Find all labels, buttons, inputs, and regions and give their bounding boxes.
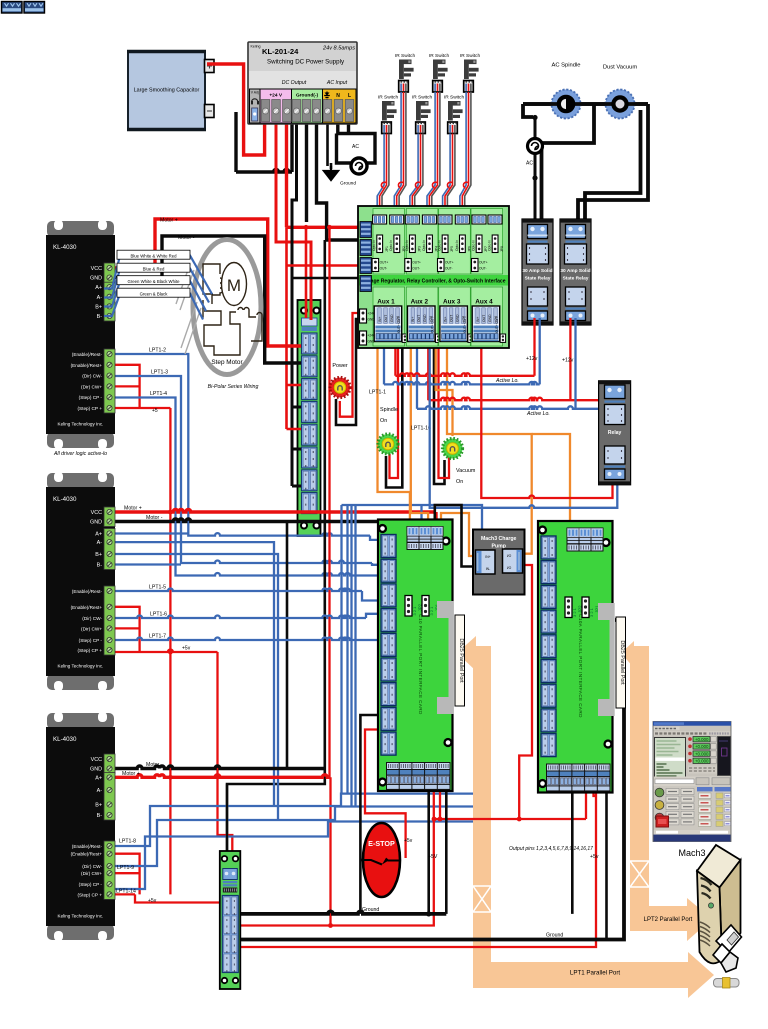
svg-text:Mach3: Mach3 [678,848,705,858]
svg-text:AC Input: AC Input [326,80,348,86]
wire +24 red rail (vertical x329.5) [330,227,331,925]
svg-text:(Step) CP +: (Step) CP + [77,406,102,411]
svg-text:LPT1 Parallel Port: LPT1 Parallel Port [570,970,620,977]
svg-text:Blue White & White Red: Blue White & White Red [130,253,177,258]
svg-text:I/O: I/O [507,566,512,570]
svg-text:Opto In: Opto In [488,240,492,251]
svg-text:LPT1-9: LPT1-9 [117,865,134,871]
junction red rail at lower bus [328,923,333,928]
opto board +24v/GND aux power connectors [360,309,367,323]
svg-text:Motor +: Motor + [160,218,178,224]
jumper JP2 on C10 board 2 [565,597,572,618]
DB25 connector of C10 board 2 [598,603,615,716]
wire IR switch lower 2 pin to opto board [410,134,418,216]
svg-text:Green White & Black White: Green White & Black White [127,279,180,284]
svg-text:IR Switch: IR Switch [460,53,481,59]
wire IR switch lower 2 pin to opto board [412,134,420,216]
svg-text:OUT+ OUT-: OUT+ OUT- [495,316,499,333]
wire driver2 A+ (blue) [104,532,188,534]
wire PSU ground 2 down (black) [307,118,365,240]
opto-switch channel connector 5 [438,215,455,272]
power supply KL-201-24 Switching DC Power Supply [248,42,357,124]
LPT1 cable crossover X symbol [473,886,491,912]
wire ground rail (vertical x324.8) [227,240,325,868]
wire PSU AC N L loop (black) [337,118,376,163]
svg-text:A+: A+ [95,285,102,291]
motor phase wire 4 [104,294,203,320]
junction charge pump red at +5v line c [517,817,522,822]
wire AC line through spindle and vacuum [523,102,648,106]
svg-text:LPT1-8: LPT1-8 [119,839,136,845]
svg-text:(Enable)/Rest-: (Enable)/Rest- [72,352,103,357]
svg-text:(Step) CP +: (Step) CP + [77,648,102,653]
svg-text:Large Smoothing Capacitor: Large Smoothing Capacitor [134,88,200,94]
svg-text:LPT1-6: LPT1-6 [150,612,167,618]
junction charge pump red at +5v line [432,817,437,822]
junction AC spindle top [532,115,537,120]
motor phase wire 3 [104,281,206,311]
C10 parallel port interface card 1 [378,520,453,792]
wire LPT1-14 (blue) [104,822,473,890]
wire PSU AC earth to ground symbol (black) [328,118,332,169]
motor phase wire 1 [104,256,212,295]
wire IR switch lower 1 pin to opto board [380,134,387,216]
svg-text:Motor -: Motor - [146,515,163,521]
solid state relay 2 - 30 Amp Solid State Relay [560,219,591,325]
wire aux2 blue to SSR2 [417,318,617,409]
ground bus 1 (black) [240,911,446,913]
dust vacuum motor [603,65,638,119]
wire IR switch upper 1 pin to opto board [397,92,404,215]
svg-text:GND: GND [90,520,102,526]
KL-4030 2 terminal strip upper [104,507,115,527]
svg-text:Active Lo.: Active Lo. [495,378,519,384]
svg-text:GND: GND [90,767,102,773]
svg-text:OUT+: OUT+ [479,261,488,265]
wire Motor + driver3 (red) [104,775,331,777]
svg-text:(Dir) CW-: (Dir) CW- [82,616,102,621]
wire charge pump orange in [441,513,476,556]
wire aux2 blue down [416,345,418,409]
wire color label - Blue White &amp; White Red [117,250,190,259]
svg-text:LPT1-2: LPT1-2 [149,348,166,354]
svg-text:JP5: JP5 [450,246,454,252]
svg-text:OUT: OUT [482,315,486,322]
solid state relay 1 - 30 Amp Solid State Relay [522,219,553,325]
junction rail at driver3 motor+ [168,775,173,780]
wire IR switch upper 3 pin to opto board [465,92,471,215]
svg-text:Opto In: Opto In [438,240,442,251]
svg-text:(Step) CP -: (Step) CP - [79,638,103,643]
wire driver2 enable jumper (red) [104,607,140,652]
svg-text:(Dir) CW+: (Dir) CW+ [81,871,102,876]
svg-text:Opto In: Opto In [455,240,459,251]
ground symbol at PSU [324,166,338,180]
C10 board 1 bottom terminal row [386,762,451,790]
wire vacuum button black [434,345,445,484]
wire +5 red rail (vertical x170) [169,408,171,894]
svg-text:Keling Technology Inc.: Keling Technology Inc. [58,664,104,669]
svg-text:+0.000: +0.000 [695,751,709,756]
wire 24V feed to opto board lower strip (red) [287,264,361,267]
svg-text:Aux 2: Aux 2 [411,299,429,306]
svg-text:Keling: Keling [251,45,261,49]
svg-text:OUT+ OUT-: OUT+ OUT- [397,316,401,333]
svg-text:+24 V: +24 V [269,93,282,99]
wire hook IR switch upper 2 [432,182,437,188]
svg-text:KL-4030: KL-4030 [53,496,77,503]
bundle blue horizontal to charge pump [342,505,483,530]
svg-text:Ground(-): Ground(-) [296,93,319,99]
wire AC source to spindle AC symbol (black) [534,117,537,139]
wire aux3 orange to vacuum button [436,345,453,436]
junction rail at driver2 +5 [168,650,173,655]
voltage regulator / relay controller / opto-switch interface board [358,206,509,348]
svg-text:LPT1-1: LPT1-1 [369,390,386,396]
stepper driver KL-4030 number 1 [46,220,115,457]
PSU V-Adj section [250,89,261,123]
jumper JP1 on C10 board 2 [582,597,589,618]
svg-text:State Relay: State Relay [525,276,551,282]
svg-text:IN-: IN- [486,567,491,571]
wire Motor + driver2 (red) [104,510,436,527]
LPT2 parallel-port cable band (vertical run from C10 board 2 DB25) [630,663,649,906]
wire driver2 gnd drop (black) [286,522,289,769]
svg-text:OUT-: OUT- [445,267,453,271]
svg-text:GND: GND [390,314,394,322]
wire driver1 enable jumper (red) [104,365,140,408]
wire +5 driver1 to red rail [104,407,170,409]
wire LPT1-9 (blue) [104,807,473,867]
wire IR switch upper 2 pin to opto board [432,92,440,215]
Mach3 software screenshot [653,722,731,842]
svg-text:Power: Power [332,363,347,369]
wire power button red [340,313,360,417]
wire aux1 orange to board1 [378,345,410,526]
wire E-stop to ground (black) [360,859,362,862]
svg-text:IN+: IN+ [378,317,382,322]
svg-text:(Dir) CW+: (Dir) CW+ [81,384,102,389]
svg-text:AC: AC [352,144,359,150]
wire orange to board2 top [532,434,570,526]
Mach3 reset button [656,816,669,827]
svg-text:V Adj: V Adj [251,91,259,95]
svg-text:IR Switch: IR Switch [429,53,450,59]
wire aux3b orange to charge pump [447,345,532,554]
PSU +24V output section [260,89,292,123]
svg-text:+12v: +12v [562,358,574,364]
wire AC mains to spindle and vacuum (black) [523,104,648,117]
svg-text:OUT-: OUT- [412,267,420,271]
svg-text:JP3: JP3 [418,246,422,252]
wire vacuum circuit to SSR2 (black) [578,104,648,222]
IR switch upper 1 [395,53,416,92]
aux output section Aux 2 [406,287,441,346]
DB25 connector of C10 board 1 [437,601,454,714]
wire capacitor + to PSU +24V (red) [207,64,265,155]
svg-text:Blue & Red: Blue & Red [143,266,165,271]
wire Motor - driver3 (black) [104,766,325,769]
svg-text:OUT+ OUT-: OUT+ OUT- [463,316,467,333]
wire spindle AC symbol to SSR1 (black) [534,154,537,223]
wire LPT1-5 (blue) [104,589,381,601]
svg-text:30 Amp Solid: 30 Amp Solid [560,268,590,274]
svg-text:DB25 Parallel Port: DB25 Parallel Port [458,638,464,683]
LPT1 parallel-port cable band (vertical run from C10 board 1 DB25) [473,663,491,962]
svg-text:Step Motor: Step Motor [211,359,243,366]
svg-text:LPT2 Parallel Port: LPT2 Parallel Port [644,917,693,923]
svg-text:(Step) CP -: (Step) CP - [79,395,103,400]
opto-switch channel connector 1 [372,215,389,272]
svg-text:+5V: +5V [428,854,438,860]
svg-text:Relay: Relay [608,430,622,436]
svg-text:+12v: +12v [526,356,538,362]
bundle blue vertical b [346,505,348,794]
svg-text:DC Output: DC Output [282,80,307,86]
svg-text:OUT+: OUT+ [412,261,421,265]
svg-text:B+: B+ [95,304,102,310]
IR switch lower 1 [378,95,399,134]
svg-text:IN+: IN+ [411,317,415,322]
wire LPT1-8 (blue) [104,794,473,846]
wire IR switch upper 3 pin to opto board [462,92,468,215]
stepper driver KL-4030 number 2 [46,472,115,691]
svg-text:B-: B- [97,813,103,819]
wire PSU +24V terminal 2 down to strip (red) [276,118,311,320]
svg-text:OUT+ OUT-: OUT+ OUT- [431,316,435,333]
svg-text:+5v: +5v [590,854,599,860]
opto-switch channel connector 6 [455,215,472,253]
PSU Ground(-) output section [292,89,323,123]
wire board1 bottom red 1 (+5V) [238,791,434,926]
svg-text:A+: A+ [95,532,102,538]
KL-4030 3 terminal strip upper [104,754,115,774]
wire Motor - driver1 (black) [104,236,301,363]
svg-text:B-: B- [97,563,103,569]
arrowhead into DB25 of board 2 [621,641,649,668]
svg-text:+24v: +24v [368,334,375,338]
LPT1 parallel-port cable band (horizontal run to computer) [473,952,714,998]
svg-text:+0.000: +0.000 [695,759,709,764]
DIN terminal strip board (center) [298,300,321,536]
svg-text:B+: B+ [95,552,102,558]
wire driver2 A- (blue) [104,542,274,806]
wire IR switch lower 2 pin to opto board [415,134,423,216]
svg-text:3 2 1: 3 2 1 [572,607,577,617]
svg-text:Motor +: Motor + [122,771,140,777]
svg-text:24v 8.5amps: 24v 8.5amps [322,46,355,52]
svg-text:OUT-: OUT- [380,267,388,271]
svg-text:LPT1-3: LPT1-3 [151,370,168,376]
svg-text:+5v: +5v [182,646,191,652]
svg-text:Opto In: Opto In [389,240,393,251]
svg-text:(Enable)/Rest+: (Enable)/Rest+ [71,363,103,368]
svg-text:DB25 Parallel Port: DB25 Parallel Port [619,640,625,685]
svg-text:Voltage Regulator, Relay Contr: Voltage Regulator, Relay Controller, & O… [362,279,506,285]
wire board1 bottom red 2 [439,791,441,819]
Mach3 charge pump module [473,530,525,595]
wire board1 to E-stop red (+5v) [365,730,406,859]
wire driver2 B+ (blue) [104,554,278,820]
wire IR switch lower 3 pin to opto board [445,134,453,216]
wire board1 to E-stop black [360,715,385,914]
wire charge pump red out [519,565,532,819]
ground bus 2 (black) [240,620,624,940]
junction ground bus at board1 black [426,911,431,916]
KL-4030 3 terminal strip lower [104,841,115,899]
svg-text:OUT: OUT [450,315,454,322]
svg-text:JP1: JP1 [385,246,389,252]
svg-text:AC Spindle: AC Spindle [551,63,580,69]
C10 board 2 bottom terminal row [546,764,611,792]
relay module [599,381,631,485]
svg-text:OUT: OUT [384,315,388,322]
svg-text:+0.000: +0.000 [695,744,709,749]
wire strip feeds from ground bus (black) [292,407,301,486]
svg-text:GND: GND [488,314,492,322]
svg-text:(Enable)/Rest+: (Enable)/Rest+ [71,605,103,610]
wire IR switch upper 1 pin to opto board [394,92,401,215]
svg-text:3 2 1: 3 2 1 [429,606,434,616]
svg-text:Mach3 Charge: Mach3 Charge [481,536,517,542]
LPT2 cable band (horizontal run to computer) [630,898,712,941]
svg-text:Motor -: Motor - [178,235,195,241]
IR switch lower 3 [444,95,465,134]
wire LPT1-3 (blue) [104,376,381,565]
DB25 Parallel Port label of board 2 [616,617,626,708]
wire IR switch upper 2 pin to opto board [429,92,437,215]
svg-text:(Enable)/Rest+: (Enable)/Rest+ [71,852,103,857]
jumper JP2 on C10 board 1 [405,596,412,617]
svg-text:Bi-Polar Series Wiring: Bi-Polar Series Wiring [208,384,259,390]
LPT2 cable crossover X symbol [630,861,649,887]
svg-text:Switching DC Power Supply: Switching DC Power Supply [267,59,345,66]
IR switch upper 2 [429,53,450,92]
wire +5v driver3 to bottom board (red) [104,894,223,902]
wire +5v line under boards [434,791,586,819]
wire aux1 blue to SSR1 [384,318,540,384]
PSU AC input section [323,89,357,123]
E-STOP emergency stop button [363,823,400,897]
wire PSU ground down to strip (black) [292,118,297,449]
wire board1 bottom black 1 [427,791,430,914]
svg-text:IR Switch: IR Switch [412,95,433,101]
wire hook IR switch lower 1 [381,182,386,188]
svg-text:GND: GND [368,340,376,344]
USB dongle icon [714,978,740,989]
E-STOP switch contact [362,860,401,865]
svg-text:AC: AC [526,161,533,167]
wire hook IR switch upper 3 [463,182,468,188]
motor phase wire 2 [104,269,209,303]
wire spindle button black loop [386,345,402,488]
svg-text:Dust Vacuum: Dust Vacuum [603,65,638,71]
stepper driver KL-4030 number 3 [46,712,115,941]
wire IR switch upper 1 pin to opto board [399,92,406,215]
opto-switch channel connector 2 [389,215,406,253]
svg-text:30 Amp Solid: 30 Amp Solid [522,268,552,274]
AC source symbol at PSU mains input [351,144,367,174]
svg-text:IN+: IN+ [444,317,448,322]
bundle blue vertical c [350,505,352,807]
svg-text:IN+: IN+ [485,555,490,559]
KL-4030 2 terminal strip lower [104,586,115,655]
jumper JP1 on C10 board 1 [422,596,429,617]
svg-text:IN+: IN+ [476,317,480,322]
svg-text:Opto In: Opto In [405,240,409,251]
svg-text:E-STOP: E-STOP [368,839,395,848]
wire +24V branch to strip mid (red) [287,227,302,429]
svg-text:I/O: I/O [507,554,512,558]
AC source symbol for spindle circuit [526,139,543,167]
svg-text:KL-201-24: KL-201-24 [262,47,299,56]
svg-text:Aux 4: Aux 4 [475,299,493,306]
wire IR switch upper 3 pin to opto board [460,92,466,215]
wire capacitor - to PSU Ground (black) [236,112,292,172]
wire color label - Green &amp; Black [117,288,190,297]
IR switch upper 3 [460,53,481,92]
svg-text:Ground: Ground [546,933,563,939]
svg-text:A-: A- [97,295,103,301]
wire LPT1-4 (blue) [104,398,381,576]
opto-switch channel connector 4 [422,215,439,253]
PC tower computer [697,845,741,963]
svg-text:OUT: OUT [417,315,421,322]
svg-text:IR Switch: IR Switch [378,95,399,101]
bundle blue vertical a [340,505,342,794]
svg-text:KL-4030: KL-4030 [53,244,77,251]
svg-text:Ground: Ground [362,907,379,913]
svg-text:(Enable)/Rest-: (Enable)/Rest- [72,844,103,849]
svg-text:Opto In: Opto In [422,240,426,251]
svg-text:Motor +: Motor + [124,506,142,512]
svg-text:IR Switch: IR Switch [395,53,416,59]
svg-text:(Step) CP +: (Step) CP + [77,892,102,897]
wire LPT1-6 (blue) [104,614,381,618]
printer / peripheral device [713,925,742,972]
step motor (Bi-Polar Series Wiring) [193,240,262,391]
IR switch lower 2 [412,95,433,134]
wire IR switch lower 1 pin to opto board [382,134,389,216]
wire vacuum button red [439,345,450,478]
svg-text:3 2 1: 3 2 1 [589,607,594,617]
wire vacuum return to SSR2 (black) [585,110,641,222]
KL-4030 1 terminal strip upper [104,263,115,283]
svg-text:C10 PARALLEL PORT INTERFACE CA: C10 PARALLEL PORT INTERFACE CARD [418,614,423,715]
wire hook IR switch upper 1 [398,182,403,188]
svg-text:GND: GND [90,276,102,282]
wire +24V branch down to strip top (red) [305,227,308,318]
svg-text:GND: GND [456,314,460,322]
capacitor - Large Smoothing Capacitor [127,52,214,130]
svg-text:3 2 1: 3 2 1 [412,606,417,616]
wire IR switch lower 1 pin to opto board [377,134,384,216]
wire gauge hatch marks [176,264,201,354]
Spindle On pushbutton [378,434,398,454]
wire Motor - driver2 (black) [104,519,428,526]
svg-text:LPT1-16: LPT1-16 [411,426,431,432]
svg-text:M: M [227,276,241,295]
svg-text:C10A PARALLEL PORT INTERFACE C: C10A PARALLEL PORT INTERFACE CARD [578,614,583,718]
svg-text:VCC: VCC [91,757,102,763]
wire driver2 B- (blue) [104,563,181,565]
svg-text:KL-4030: KL-4030 [53,736,77,743]
wire spindle return to SSR1 (black) [542,104,595,222]
wire aux1 red to SSR1 (+12v) [395,318,534,376]
wire IR switch lower 3 pin to opto board [447,134,455,216]
svg-text:OUT+: OUT+ [380,261,389,265]
svg-text:B+: B+ [95,803,102,809]
